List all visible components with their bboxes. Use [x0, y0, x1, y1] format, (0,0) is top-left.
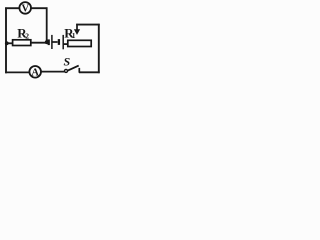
wire bottom middle segment — [42, 71, 65, 73]
rheostat R1 box — [68, 40, 91, 46]
wire bottom left segment — [5, 71, 29, 73]
node junction dot battery left — [45, 40, 49, 44]
wire R2 right to junction — [31, 42, 47, 44]
battery cell2 short plate — [58, 39, 60, 45]
battery cell2 long plate — [62, 35, 64, 49]
svg-text:1: 1 — [72, 31, 76, 40]
rheostat slider arrowhead — [74, 29, 80, 35]
voltmeter V circle — [19, 2, 31, 14]
ammeter A circle — [29, 66, 41, 78]
wire left vertical — [5, 7, 7, 73]
wire bottom right segment — [79, 71, 100, 73]
switch pivot circle — [65, 69, 68, 72]
battery cell1 short plate — [48, 39, 50, 45]
wire top-right horizontal — [76, 24, 100, 26]
wire right vertical — [98, 24, 100, 73]
svg-text:2: 2 — [25, 32, 29, 41]
switch lever — [68, 66, 79, 71]
battery cell1 long plate — [51, 35, 53, 49]
svg-text:A: A — [31, 67, 39, 78]
wire voltmeter right horizontal — [31, 7, 47, 9]
wire main left segment — [6, 42, 14, 44]
wire between battery cells — [53, 41, 58, 43]
rheostat slider arrow shaft — [76, 24, 78, 32]
svg-text:S: S — [64, 55, 71, 69]
svg-text:V: V — [22, 3, 30, 14]
resistor R2 box — [13, 40, 31, 46]
wire top-left horizontal to voltmeter — [5, 7, 19, 9]
wire battery to rheostat — [64, 43, 69, 45]
switch right contact tick — [78, 68, 80, 73]
node junction dot R2 left — [5, 41, 9, 45]
wire voltmeter right vertical drop — [46, 7, 48, 42]
